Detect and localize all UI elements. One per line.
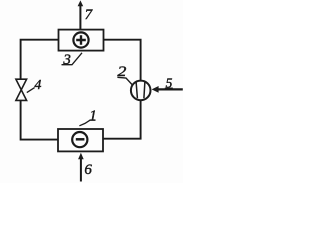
wire right-bottom (compressor to evaporator) [103,100,141,138]
arrow 5 (input into compressor) [157,88,183,90]
label 4 leader [27,88,35,93]
expansion valve 4 [16,79,27,100]
compressor circle 2 [131,81,151,101]
minus sign [76,138,85,141]
svg-text:1: 1 [89,108,97,124]
label 5 underline [165,87,173,89]
wire left-bottom (valve to evaporator) [21,100,58,139]
svg-text:6: 6 [84,162,92,178]
svg-text:3: 3 [62,52,71,68]
wire top-right (condenser to compressor) [104,40,141,81]
plus circle in condenser [73,32,88,47]
label 3 leader [62,53,83,65]
plus sign [76,35,86,45]
label 2 leader [117,77,133,85]
compressor inner lines [136,82,145,99]
minus circle in evaporator [72,132,87,147]
evaporator box 1 [58,129,103,151]
svg-text:4: 4 [34,78,41,93]
label 1 leader [79,120,95,126]
arrow 7 (output up from condenser) [79,5,81,29]
condenser box 3 [59,30,104,51]
arrow 6 (input up into evaporator) [80,157,82,182]
wire top-left (condenser to valve) [21,40,59,79]
